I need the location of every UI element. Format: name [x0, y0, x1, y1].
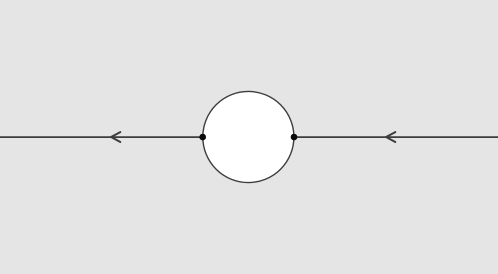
vertex V1 (left)	[199, 134, 206, 141]
loop: self-energy bubble	[203, 91, 294, 182]
vertex V2 (right)	[291, 134, 298, 141]
wire: right external propagator	[294, 136, 498, 138]
arrowhead on right propagator (points left)	[386, 132, 395, 142]
arrowhead on left propagator (points left)	[111, 132, 120, 142]
wire: left external propagator	[0, 136, 203, 138]
